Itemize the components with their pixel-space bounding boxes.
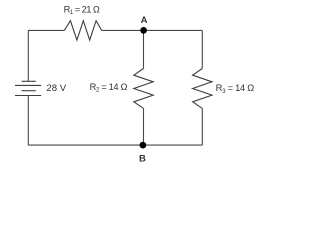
wire top-right segment [102, 29, 203, 31]
battery V1 plate long upper [15, 84, 41, 86]
wire bottom segment [28, 144, 202, 146]
wire middle branch lower [143, 108, 145, 145]
resistor R1 [64, 21, 101, 40]
svg-text:28 V: 28 V [46, 83, 66, 94]
svg-text:R3 = 14 Ω: R3 = 14 Ω [216, 83, 255, 95]
wire top-left segment [28, 29, 64, 31]
svg-text:R2 = 14 Ω: R2 = 14 Ω [90, 82, 128, 94]
resistor R2 [134, 69, 153, 109]
svg-text:A: A [141, 15, 148, 26]
wire right branch lower [201, 108, 203, 145]
battery V1 plate long bottom [15, 95, 41, 97]
svg-text:B: B [139, 153, 146, 164]
battery V1 plate short top [22, 80, 36, 82]
node B dot [140, 142, 147, 149]
resistor R3 [193, 69, 212, 109]
wire middle branch upper [143, 30, 145, 68]
node A dot [140, 27, 147, 34]
svg-text:R1 = 21 Ω: R1 = 21 Ω [64, 4, 100, 16]
wire left branch lower [27, 96, 29, 146]
wire right branch upper [201, 30, 203, 68]
wire left branch upper [27, 30, 29, 81]
battery V1 plate short lower [22, 90, 36, 92]
